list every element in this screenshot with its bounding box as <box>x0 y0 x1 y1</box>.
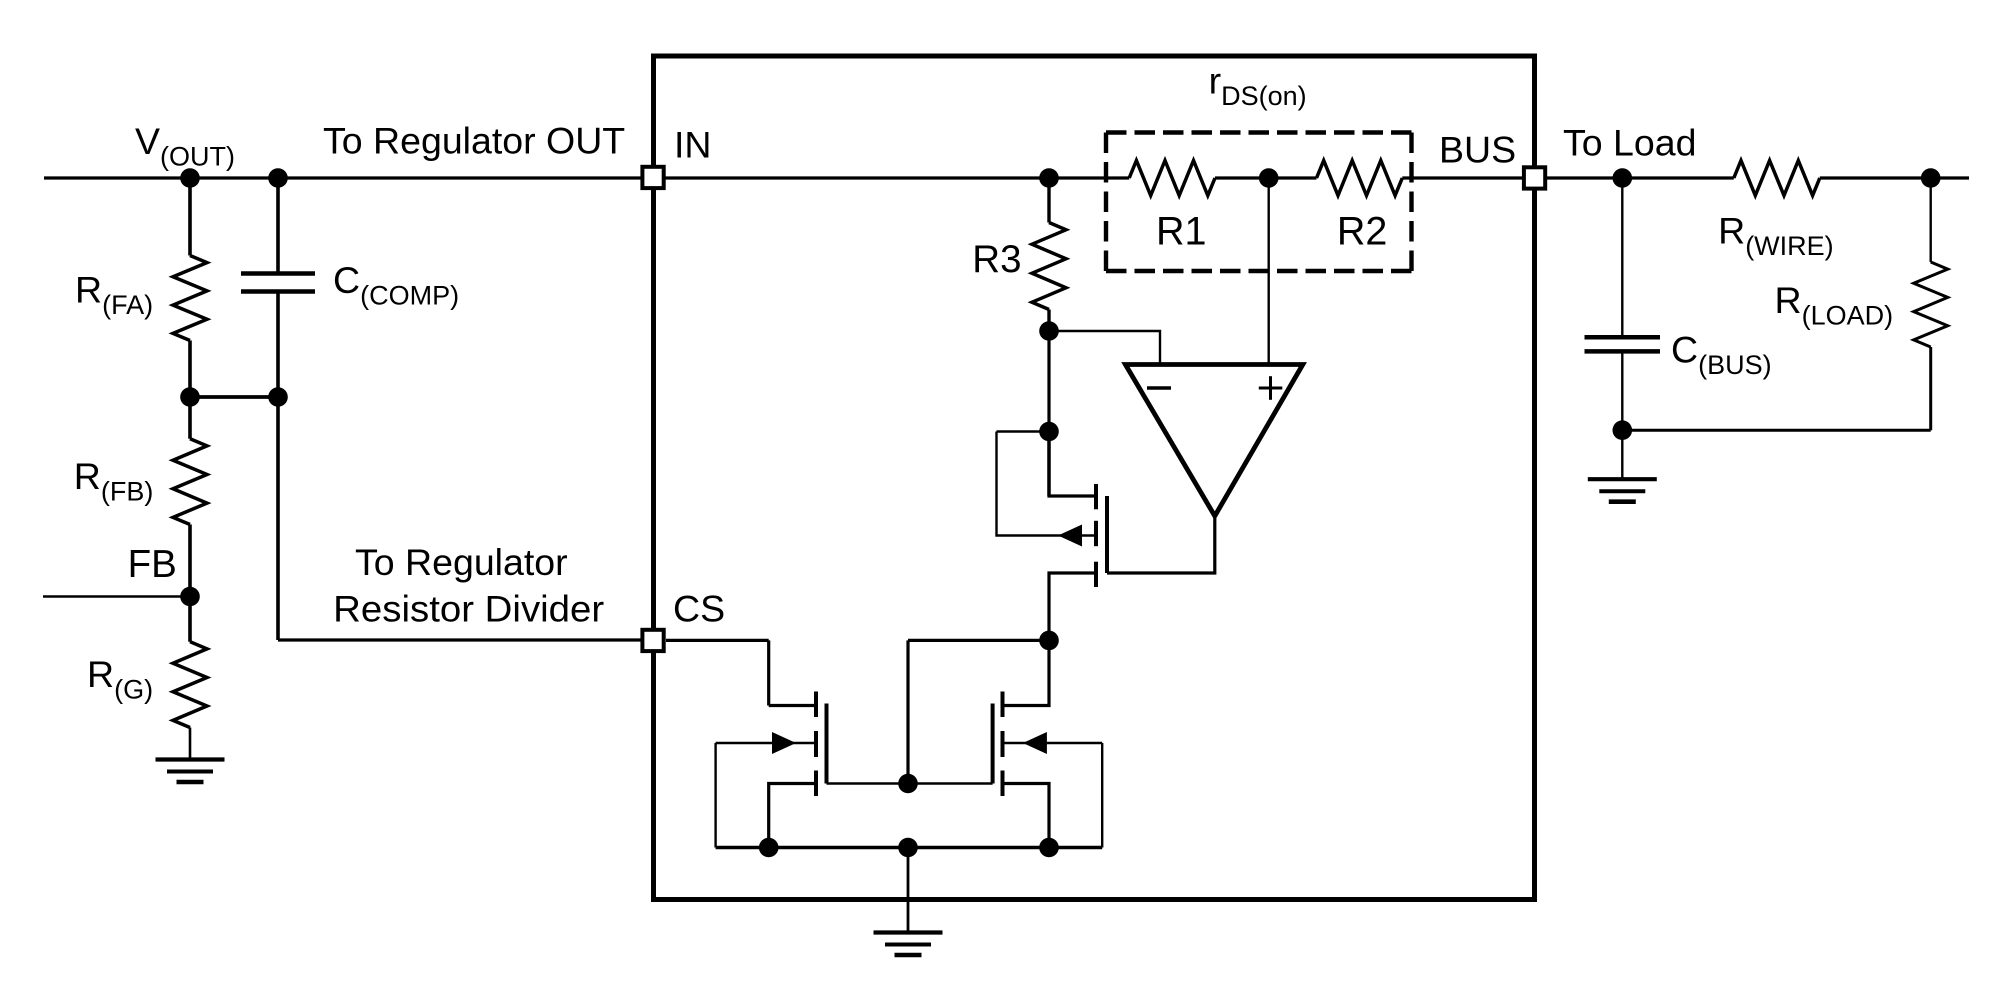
svg-text:FB: FB <box>128 543 177 586</box>
svg-text:BUS: BUS <box>1439 129 1516 171</box>
svg-text:CS: CS <box>673 588 725 630</box>
svg-text:R2: R2 <box>1337 210 1388 254</box>
svg-text:Resistor Divider: Resistor Divider <box>333 588 604 630</box>
svg-text:R1: R1 <box>1156 210 1207 254</box>
svg-text:IN: IN <box>674 124 712 166</box>
svg-text:R3: R3 <box>972 238 1021 281</box>
svg-text:To Load: To Load <box>1563 122 1696 164</box>
svg-text:To Regulator: To Regulator <box>355 541 568 583</box>
svg-text:To Regulator OUT: To Regulator OUT <box>323 120 625 162</box>
